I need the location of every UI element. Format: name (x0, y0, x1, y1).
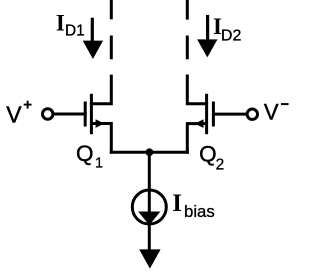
current source arrowhead (inside circle) (138, 212, 160, 226)
svg-text:D2: D2 (221, 28, 242, 45)
transistor Q2 (NMOS, right) (187, 94, 247, 154)
Q2 gate lead (212, 113, 247, 116)
svg-text:bias: bias (184, 202, 215, 221)
Q2 channel plate (205, 94, 208, 134)
svg-text:I: I (172, 190, 182, 217)
svg-text:2: 2 (216, 156, 225, 173)
Q1 gate plate (84, 102, 87, 127)
wire: common source rail (110, 151, 189, 154)
current arrow ID1 (83, 18, 103, 59)
label I_D2 (213, 14, 241, 45)
label Q1 (76, 141, 103, 172)
label Q2 (199, 142, 224, 174)
svg-text:1: 1 (95, 156, 103, 172)
tail arrowhead to negative supply (139, 249, 160, 268)
wire: left drain solid wire into Q1 drain (90, 75, 111, 104)
current arrow ID2 (197, 15, 217, 58)
Q1 source lead with arrow (91, 124, 111, 154)
wire: right drain solid wire into Q2 drain (187, 75, 208, 104)
label V+ (6, 101, 31, 128)
wire: left drain dashed line (top) (110, 0, 113, 59)
svg-text:V: V (264, 99, 279, 124)
wire: right drain dashed line (top) (186, 0, 189, 59)
node: source junction dot (146, 148, 154, 156)
svg-text:I: I (56, 10, 65, 35)
label I_bias (172, 190, 214, 221)
label V- (264, 99, 289, 124)
svg-text:Q: Q (199, 142, 217, 167)
svg-text:V: V (6, 102, 22, 128)
label I_D1 (56, 10, 85, 39)
input terminal circle V+ (43, 109, 53, 119)
input terminal circle V- (247, 109, 257, 119)
svg-text:D1: D1 (65, 23, 85, 40)
wire: tail stem down through current source (148, 152, 151, 252)
Q1 channel plate (90, 94, 93, 134)
transistor Q1 (NMOS, left) (53, 94, 111, 154)
current source Ibias circle (132, 190, 166, 224)
Q2 gate plate (212, 102, 215, 127)
Q1 gate lead (53, 113, 87, 116)
Q2 source lead with arrow (187, 124, 206, 154)
svg-text:Q: Q (76, 141, 94, 166)
